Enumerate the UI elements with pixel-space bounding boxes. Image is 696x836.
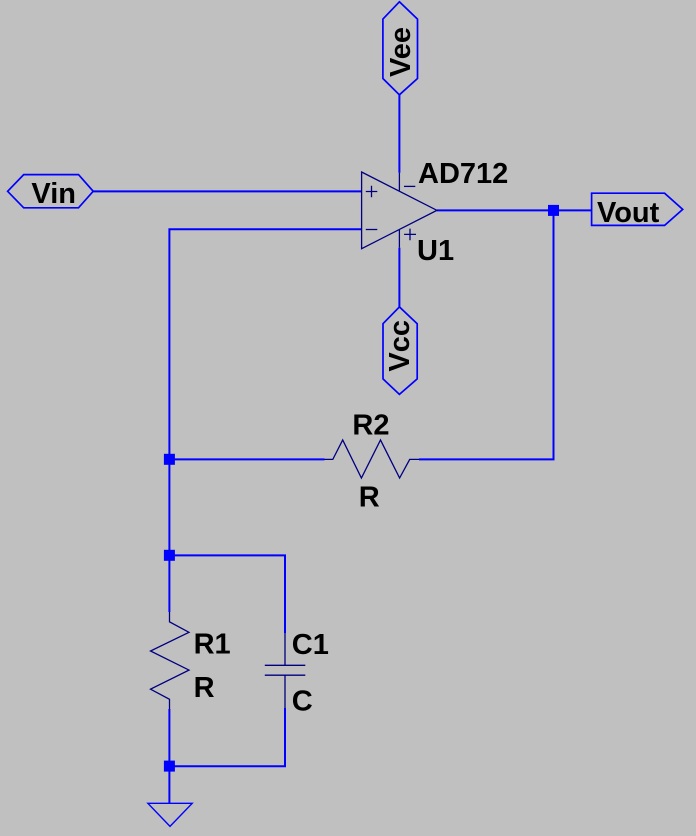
svg-text:R1: R1 (194, 628, 231, 660)
svg-text:AD712: AD712 (418, 158, 508, 190)
svg-text:R: R (359, 482, 380, 514)
svg-text:R: R (194, 672, 215, 704)
svg-text:Vin: Vin (31, 178, 76, 210)
svg-text:Vee: Vee (385, 27, 417, 77)
svg-text:C: C (292, 686, 313, 718)
svg-text:U1: U1 (417, 235, 454, 267)
svg-text:Vcc: Vcc (384, 320, 416, 372)
svg-text:R2: R2 (352, 410, 389, 442)
svg-text:Vout: Vout (597, 197, 660, 229)
svg-text:C1: C1 (292, 629, 329, 661)
